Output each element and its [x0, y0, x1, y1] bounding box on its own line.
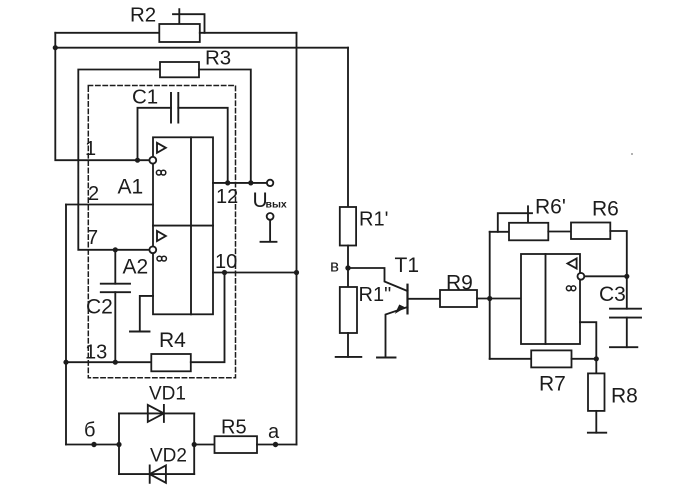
svg-text:C2: C2	[86, 296, 113, 319]
node b marker	[91, 442, 96, 447]
node junction pin10 with R2 riser	[294, 270, 299, 275]
diode VD2	[150, 465, 166, 482]
svg-text:A1: A1	[118, 175, 144, 198]
node junction output C3 R6	[624, 274, 629, 279]
wire R4 right up to pin10 net	[191, 273, 225, 363]
resistor R7	[531, 350, 571, 367]
svg-text:R7: R7	[539, 373, 566, 396]
capacitor C1	[171, 93, 178, 123]
ground T1 emitter	[377, 357, 396, 359]
diode pair frame left	[118, 413, 120, 474]
infinity A1	[156, 170, 165, 175]
wire R8 to ground	[595, 411, 597, 433]
wire pin 12 output	[213, 182, 267, 184]
resistor R3	[160, 62, 199, 77]
output common terminal	[261, 213, 277, 242]
wire C3 top leg	[626, 276, 628, 308]
svg-text:а: а	[268, 421, 280, 443]
node junction C2 bottom on pin13 wire	[113, 360, 118, 365]
wire R6' to R6	[548, 231, 571, 233]
label node b	[84, 420, 95, 442]
wire VD2 branch	[119, 473, 194, 475]
op-amp A1 symbol marks	[157, 143, 166, 153]
wire R1 branch vertical from top bus	[347, 48, 349, 207]
svg-text:C3: C3	[599, 283, 626, 306]
label R2	[130, 4, 156, 27]
node junction diode frame left	[116, 442, 121, 447]
node junction at left bus	[53, 45, 58, 50]
svg-text:VD1: VD1	[149, 384, 186, 405]
wire pin 10 output	[213, 272, 297, 274]
svg-text:C1: C1	[132, 86, 158, 109]
trimmer tap of R2	[173, 9, 205, 33]
svg-text:2: 2	[88, 183, 99, 205]
wire T1 base lead to R9	[408, 298, 441, 300]
node a marker	[273, 442, 278, 447]
svg-text:R6': R6'	[535, 196, 566, 219]
wire left vertical to pin 1	[55, 33, 149, 160]
diode pair frame right	[193, 413, 195, 474]
scan speck artifact	[631, 153, 633, 155]
wire node v to transistor base	[348, 268, 408, 291]
capacitor C3	[610, 309, 641, 318]
trimmer tap of R6'	[498, 206, 532, 232]
ground A2 input	[130, 331, 150, 333]
svg-text:7: 7	[87, 227, 98, 249]
wire A3 output to node	[585, 275, 627, 277]
label VD2	[150, 446, 187, 467]
wire A3 feedback right	[580, 322, 596, 359]
svg-text:R9: R9	[446, 272, 473, 295]
label VD1	[149, 384, 186, 405]
pin label 7	[87, 227, 98, 249]
svg-text:R1': R1'	[359, 209, 388, 231]
wire C2 top leg	[114, 250, 116, 284]
node junction C1 right on pin12 wire	[225, 180, 230, 185]
svg-text:б: б	[84, 420, 95, 442]
diode VD1	[148, 405, 164, 422]
wire VD1 branch	[119, 412, 194, 414]
label R3	[205, 47, 231, 70]
wire A2 noninverting input to ground	[140, 296, 153, 332]
node junction C1 left on pin1 wire	[135, 158, 140, 163]
resistor R1''	[340, 287, 357, 333]
label T1	[395, 254, 420, 277]
wire R2 right to vertical riser	[200, 32, 297, 34]
svg-text:T1: T1	[395, 254, 420, 277]
wire R6 right down to output node	[610, 231, 627, 276]
node junction diode frame right	[192, 442, 197, 447]
svg-text:VD2: VD2	[150, 446, 187, 467]
label R4	[159, 329, 186, 352]
ground R1''	[336, 356, 362, 358]
capacitor C2	[101, 284, 130, 293]
op-amp A1 inverting input circle pin 1	[149, 157, 156, 164]
wire left loop vertical pin2 to pin13 to node b	[65, 205, 67, 445]
pin label 2	[88, 183, 99, 205]
infinity A3	[566, 286, 575, 291]
wire R8 top leg	[595, 359, 597, 374]
svg-text:вых: вых	[266, 199, 287, 211]
wire R5 to node a	[257, 444, 297, 446]
node junction pin13 left	[63, 360, 68, 365]
wire diode to R5	[194, 444, 214, 446]
op-amp A2 symbol marks	[157, 231, 166, 241]
resistor R5	[215, 436, 258, 453]
resistor R1'	[340, 207, 356, 246]
svg-text:12: 12	[216, 186, 238, 208]
wire inverting bus (node 1 to R1' branch)	[55, 47, 348, 49]
label C3	[599, 283, 626, 306]
wire right loop vertical	[489, 232, 491, 359]
label R1'	[359, 209, 388, 231]
label R1''	[359, 284, 392, 306]
wire C1 left leg	[138, 108, 172, 160]
resistor R6'	[509, 223, 548, 241]
wire top feedback from node 1 to R2	[55, 32, 159, 34]
label Uout	[253, 189, 287, 212]
op-amp A3 output circle	[578, 273, 585, 280]
svg-text:A2: A2	[123, 255, 149, 278]
wire R6' left leg	[490, 231, 509, 233]
node junction R7 R8 feedback	[594, 356, 599, 361]
label R6'	[535, 196, 566, 219]
dashed module boundary	[88, 86, 235, 378]
label R8	[611, 385, 638, 408]
wire R3 left leg	[78, 70, 160, 250]
label node v	[330, 257, 339, 276]
svg-text:R5: R5	[221, 417, 247, 439]
label node a	[268, 421, 280, 443]
wire R3 right leg down to pin12 net	[199, 70, 251, 183]
node junction R9 right loop	[487, 296, 492, 301]
label C2	[86, 296, 113, 319]
wire pin 13	[66, 361, 151, 363]
pin label 12	[216, 186, 238, 208]
svg-text:10: 10	[215, 251, 237, 273]
wire C1 right leg down to pin12 net	[178, 108, 227, 183]
resistor R2	[159, 24, 200, 42]
label A2	[123, 255, 149, 278]
label C1	[132, 86, 158, 109]
node junction R3 right on pin12 wire	[248, 180, 253, 185]
wire node b bottom	[66, 444, 119, 446]
label R9	[446, 272, 473, 295]
ground R8	[588, 432, 606, 434]
wire pin 2	[66, 204, 153, 206]
resistor R4	[151, 354, 191, 371]
resistor R6	[571, 223, 610, 240]
svg-text:R4: R4	[159, 329, 186, 352]
op-amp A1/A2 block body	[153, 137, 213, 314]
wire R1' to node v	[347, 246, 349, 269]
svg-text:в: в	[330, 257, 339, 276]
svg-text:13: 13	[85, 342, 107, 364]
label A1	[118, 175, 144, 198]
wire node v to R1''	[347, 268, 349, 287]
wire R1'' to ground	[347, 333, 349, 357]
wire vertical riser R2 right down to node a line	[296, 33, 298, 445]
label R6	[592, 198, 619, 221]
pin label 10	[215, 251, 237, 273]
pin label 1	[85, 138, 96, 160]
wire R7 left leg	[490, 358, 532, 360]
wire C3 bottom leg	[626, 318, 628, 348]
infinity A2	[157, 256, 166, 261]
node junction R4 riser on pin10 wire	[222, 270, 227, 275]
svg-text:R2: R2	[130, 4, 156, 27]
svg-text:R8: R8	[611, 385, 638, 408]
output terminal circle Uout	[267, 180, 273, 186]
transistor T1	[386, 285, 408, 358]
ground C3	[610, 346, 637, 348]
wire R7 right leg	[572, 358, 597, 360]
svg-text:R3: R3	[205, 47, 231, 70]
label R5	[221, 417, 247, 439]
wire R9 to right block input	[477, 298, 521, 300]
svg-text:R1": R1"	[359, 284, 392, 306]
node junction C2 top on pin7 wire	[113, 247, 118, 252]
pin label 13	[85, 342, 107, 364]
resistor R9	[440, 290, 477, 307]
wire C2 bottom leg	[114, 292, 116, 362]
op-amp A3 triangle mark	[568, 258, 577, 268]
op-amp A3 block body	[521, 254, 580, 344]
label R7	[539, 373, 566, 396]
resistor R8	[588, 373, 605, 411]
node v marker	[345, 265, 350, 270]
op-amp A2 inverting input circle pin 7	[149, 246, 156, 253]
svg-text:R6: R6	[592, 198, 619, 221]
svg-text:1: 1	[85, 138, 96, 160]
